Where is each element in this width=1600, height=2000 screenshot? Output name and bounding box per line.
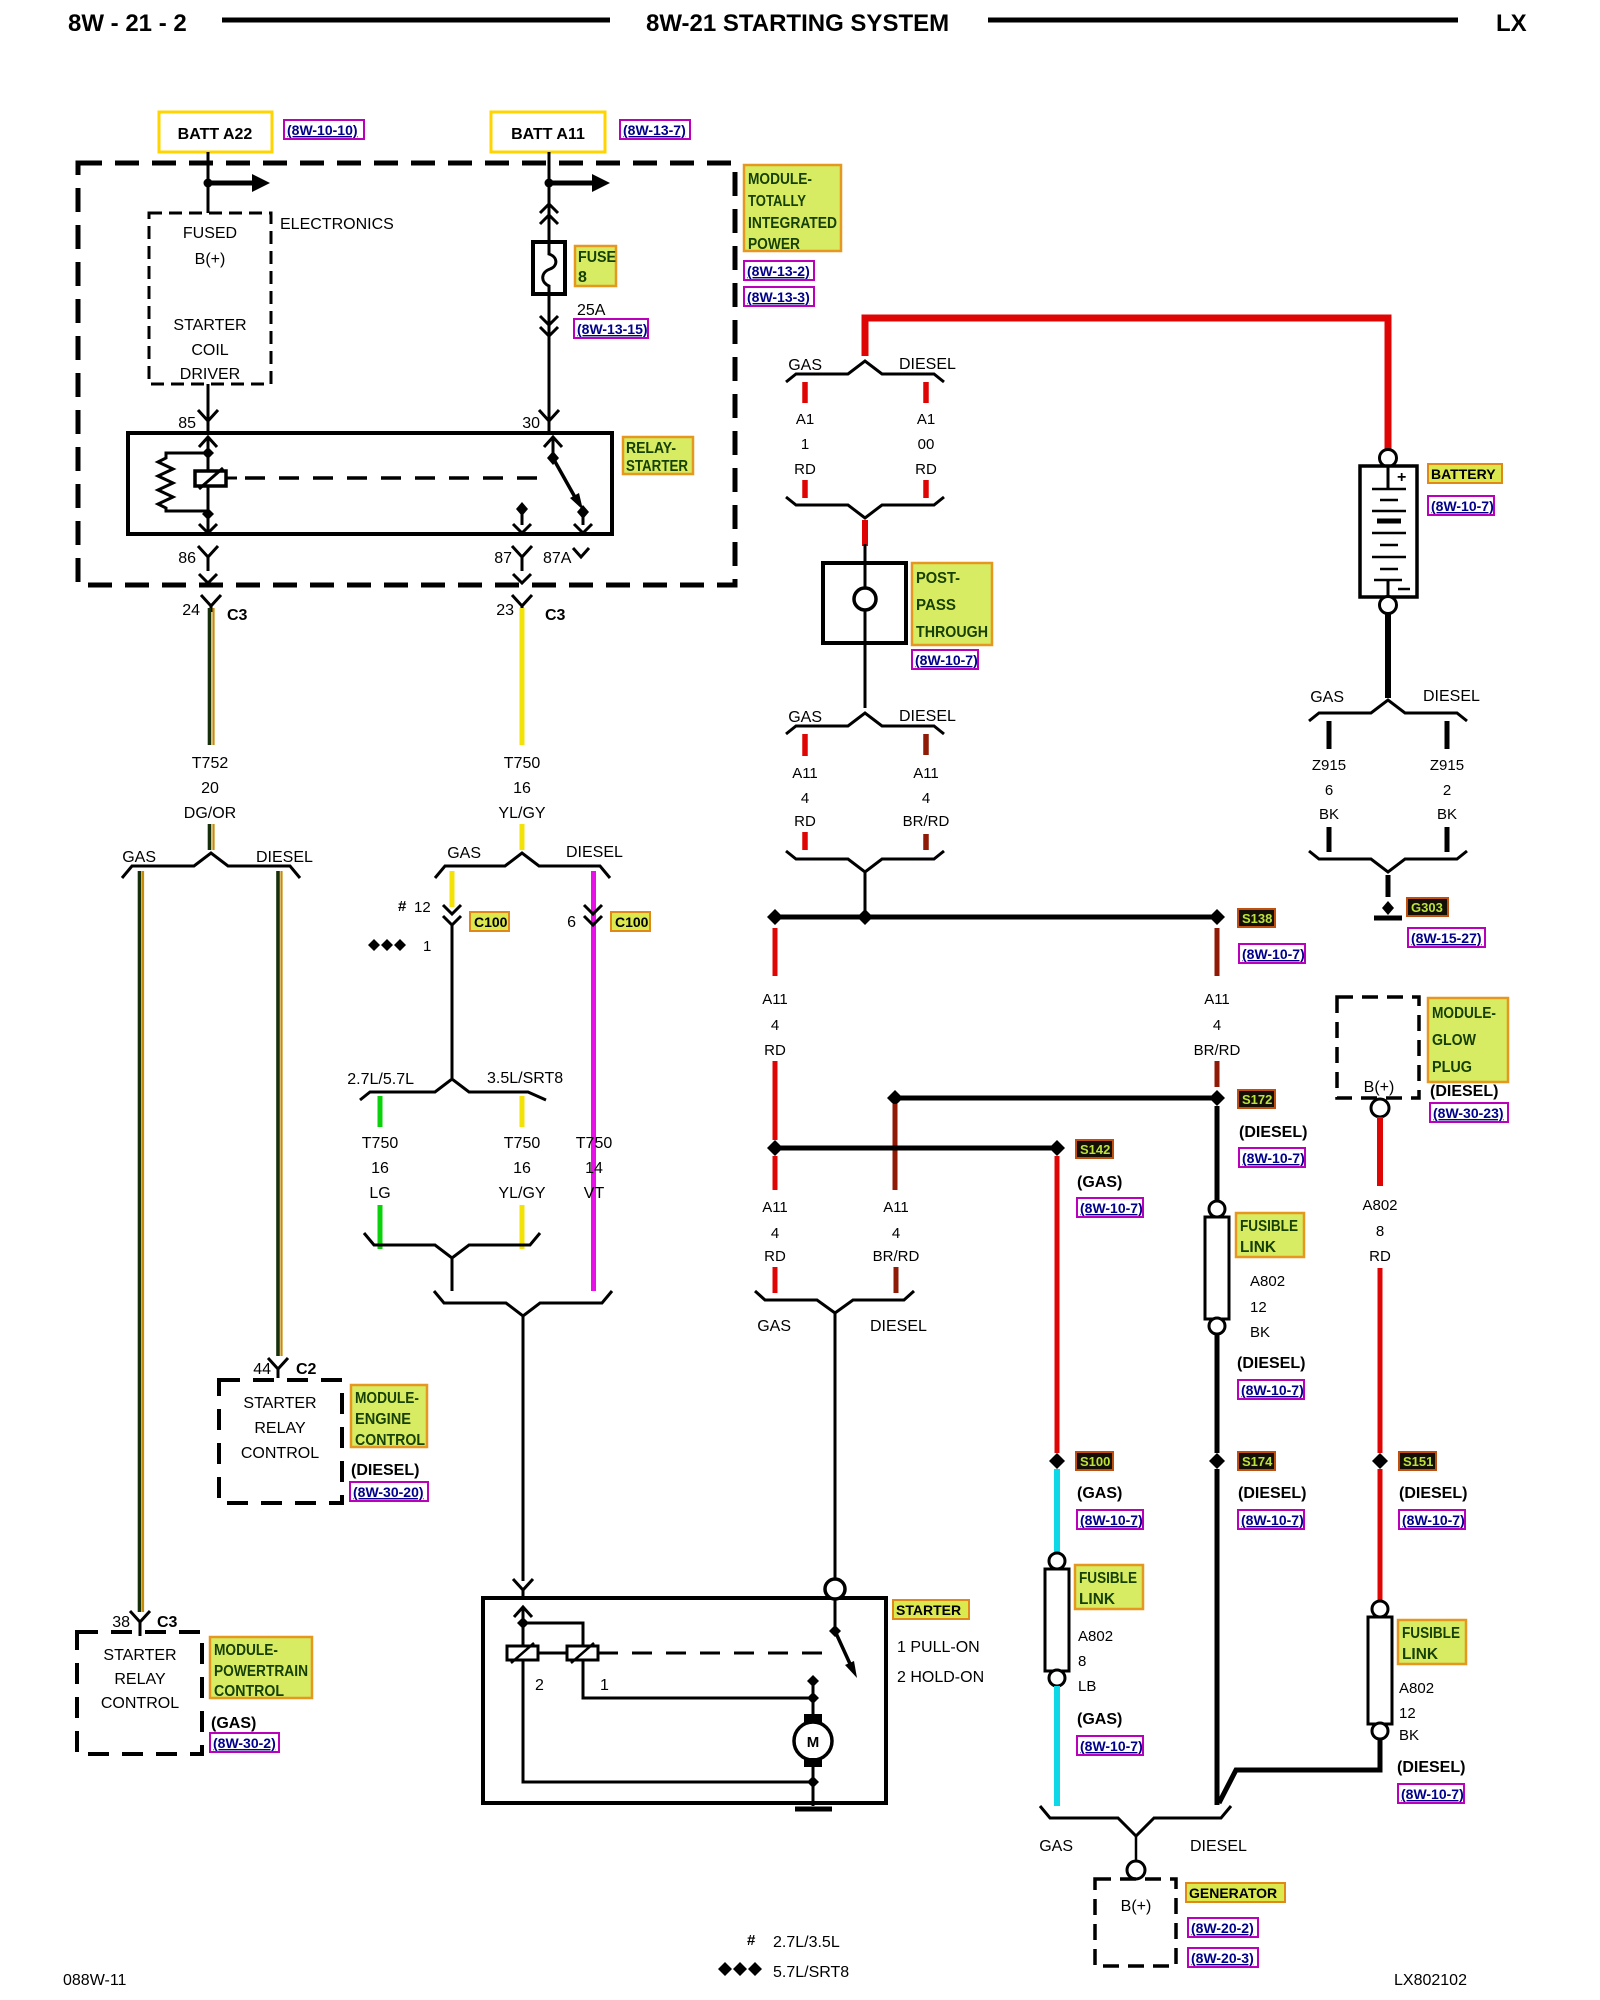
connector C100 diesel chevrons	[584, 905, 602, 925]
wire to generator terminal	[1135, 1836, 1138, 1862]
link 8W-10-7 battery	[1428, 496, 1494, 515]
connector C3 pin 23 Y	[512, 595, 532, 612]
wire RD gas below S142 bus	[773, 1156, 778, 1190]
wire stub LG lower	[378, 1205, 383, 1249]
svg-text:G303: G303	[1411, 900, 1443, 915]
svg-text:(8W-10-7): (8W-10-7)	[1401, 1786, 1464, 1802]
svg-text:POST-: POST-	[916, 570, 960, 587]
svg-text:#: #	[398, 898, 407, 915]
label T752 20 DG/OR	[184, 755, 236, 822]
svg-text:(8W-10-7): (8W-10-7)	[1241, 1382, 1304, 1398]
fusible link gas	[1045, 1553, 1069, 1686]
svg-text:RD: RD	[794, 461, 816, 478]
svg-text:87A: 87A	[543, 550, 572, 567]
label T750 14 VT	[576, 1135, 613, 1202]
link 8W-10-7 S172	[1239, 1148, 1305, 1167]
svg-text:FUSED: FUSED	[183, 225, 237, 242]
svg-text:+: +	[1397, 469, 1406, 486]
wire motor return to coil2	[523, 1660, 813, 1782]
svg-text:RD: RD	[764, 1042, 786, 1059]
svg-text:MODULE-: MODULE-	[355, 1390, 419, 1407]
junction dot coil bottom	[202, 508, 214, 520]
label FUSE 8	[575, 246, 616, 286]
glow plug terminal circle	[1371, 1099, 1389, 1117]
merge brace A1	[786, 497, 944, 518]
svg-text:LINK: LINK	[1079, 1591, 1115, 1608]
svg-text:BK: BK	[1319, 806, 1339, 823]
connector C3 Y pin 38	[130, 1611, 150, 1636]
svg-text:2.7L/5.7L: 2.7L/5.7L	[347, 1071, 414, 1088]
svg-text:C3: C3	[545, 607, 566, 624]
svg-text:T750: T750	[576, 1135, 613, 1152]
wire stub BR/RD above merge	[894, 1267, 899, 1293]
post pass-through box	[823, 544, 906, 643]
svg-text:RELAY: RELAY	[254, 1420, 306, 1437]
svg-text:S100: S100	[1080, 1454, 1110, 1469]
split brace engine variants	[360, 1079, 546, 1100]
junction diamond center bus	[857, 909, 873, 925]
label A11 4 BR/RD splice column	[1194, 991, 1241, 1059]
merge brace A11	[786, 851, 944, 872]
wire motor to ground	[812, 1782, 815, 1806]
svg-text:16: 16	[513, 1160, 531, 1177]
wire stub A1 diesel red lower	[923, 480, 929, 498]
label T750 16 LG	[362, 1135, 399, 1202]
wire FUSED box to pin 85	[207, 384, 210, 433]
label S151	[1399, 1452, 1436, 1470]
svg-text:BR/RD: BR/RD	[873, 1248, 920, 1265]
link 8W-20-3	[1188, 1948, 1258, 1967]
svg-text:BATTERY: BATTERY	[1431, 466, 1496, 482]
label A11 4 BR/RD diesel lower	[873, 1199, 920, 1265]
link 8W-10-7 S151	[1399, 1510, 1465, 1529]
svg-text:1 PULL-ON: 1 PULL-ON	[897, 1639, 980, 1656]
svg-text:1: 1	[801, 436, 809, 453]
relay switch blade	[553, 458, 583, 510]
svg-text:85: 85	[178, 415, 196, 432]
svg-text:4: 4	[771, 1017, 779, 1034]
svg-text:(8W-10-7): (8W-10-7)	[1080, 1738, 1143, 1754]
svg-text:2.7L/3.5L: 2.7L/3.5L	[773, 1934, 840, 1951]
svg-text:RD: RD	[794, 813, 816, 830]
label MODULE-TOTALLY INTEGRATED POWER	[744, 165, 841, 253]
svg-text:DIESEL: DIESEL	[870, 1318, 927, 1335]
starter switch pivot dot	[829, 1625, 841, 1637]
svg-text:A1: A1	[917, 411, 935, 428]
svg-text:MODULE-: MODULE-	[748, 171, 812, 188]
wire LB S100 to fusible link	[1054, 1469, 1060, 1554]
svg-text:24: 24	[182, 602, 200, 619]
svg-text:RD: RD	[1369, 1248, 1391, 1265]
svg-text:LINK: LINK	[1402, 1646, 1438, 1663]
starter dashed actuator line	[598, 1652, 830, 1655]
relay pin 30 entry arrow	[544, 437, 562, 457]
svg-text:16: 16	[513, 780, 531, 797]
svg-text:RD: RD	[915, 461, 937, 478]
wire stub A11 diesel brrd	[923, 734, 929, 755]
svg-text:CONTROL: CONTROL	[355, 1432, 425, 1449]
svg-text:RELAY: RELAY	[114, 1671, 166, 1688]
svg-text:BATT A22: BATT A22	[178, 126, 253, 143]
wire VT diesel branch	[591, 871, 596, 1291]
svg-text:STARTER: STARTER	[103, 1647, 176, 1664]
link 8W-30-2	[210, 1733, 279, 1752]
junction diamond S172	[1209, 1090, 1225, 1106]
link 8W-10-10	[284, 120, 364, 139]
wire T750 16 YL from pin 23	[520, 608, 525, 745]
relay coil symbol	[195, 468, 226, 489]
split brace gas/diesel right	[435, 853, 610, 878]
wire from BATT A11 down into TIPM	[548, 152, 551, 243]
svg-text:(DIESEL): (DIESEL)	[351, 1462, 419, 1479]
svg-text:(8W-30-23): (8W-30-23)	[1433, 1105, 1504, 1121]
svg-text:1: 1	[423, 938, 431, 955]
svg-text:(DIESEL): (DIESEL)	[1239, 1124, 1307, 1141]
merge brace engine variants	[364, 1233, 540, 1258]
link 8W-10-7 fl gas	[1077, 1736, 1143, 1755]
arrow feed to right from A22 node	[208, 174, 270, 192]
merge brace Z915	[1309, 851, 1467, 872]
label Z915 6 BK	[1312, 757, 1346, 823]
svg-text:12: 12	[414, 899, 431, 916]
label A802 8 LB	[1078, 1628, 1113, 1695]
label GENERATOR	[1186, 1883, 1285, 1902]
pin 87 connector Y and stem	[512, 546, 532, 583]
wire RD S151 to fusible link	[1378, 1469, 1383, 1602]
svg-text:(8W-13-15): (8W-13-15)	[577, 321, 648, 337]
connector C100 gas chevrons	[443, 905, 461, 925]
svg-text:6: 6	[1325, 782, 1333, 799]
svg-text:(DIESEL): (DIESEL)	[1399, 1485, 1467, 1502]
svg-text:Z915: Z915	[1312, 757, 1346, 774]
svg-text:4: 4	[1213, 1017, 1221, 1034]
svg-text:(8W-10-10): (8W-10-10)	[287, 122, 358, 138]
svg-text:00: 00	[918, 436, 935, 453]
svg-text:1: 1	[600, 1677, 609, 1694]
module box TIPM dashed outline	[78, 163, 735, 585]
pin 87A stub chevron	[573, 548, 589, 557]
svg-text:S172: S172	[1242, 1092, 1272, 1107]
starter switch terminal circle	[825, 1579, 845, 1599]
svg-text:38: 38	[112, 1614, 130, 1631]
link 8W-30-23	[1430, 1103, 1508, 1122]
generator terminal circle	[1127, 1861, 1145, 1879]
link 8W-13-3	[744, 287, 814, 306]
svg-text:(8W-13-7): (8W-13-7)	[623, 122, 686, 138]
wire stub YL above split	[520, 824, 525, 850]
link 8W-20-2	[1188, 1918, 1258, 1937]
label T750 16 YL/GY srt	[498, 1135, 545, 1202]
svg-text:DIESEL: DIESEL	[1423, 688, 1480, 705]
junction diamond S151	[1372, 1453, 1388, 1469]
link 8W-10-7 S142	[1077, 1198, 1143, 1217]
pin 30 connector Y	[539, 410, 559, 433]
wire to starter switch	[834, 1313, 837, 1579]
link 8W-10-7 S174	[1238, 1510, 1304, 1529]
junction dot motor top node	[807, 1675, 819, 1687]
wire stub Z915 diesel bk	[1445, 721, 1450, 749]
wire RD glow plug to S151	[1378, 1268, 1383, 1453]
label A11 4 BR/RD diesel	[903, 765, 950, 830]
label S172	[1238, 1090, 1275, 1108]
svg-text:DIESEL: DIESEL	[256, 849, 313, 866]
label S142	[1076, 1140, 1113, 1158]
link 8W-10-7 S138	[1239, 944, 1305, 963]
svg-text:A11: A11	[762, 1199, 788, 1216]
wire RD gas branch mid	[773, 1061, 778, 1140]
wire stub BR/RD above S172	[1215, 1061, 1220, 1087]
label C100 diesel	[611, 912, 650, 931]
arrow into starter box	[514, 1607, 532, 1617]
svg-text:S151: S151	[1403, 1454, 1433, 1469]
battery body	[1360, 466, 1417, 597]
svg-text:(GAS): (GAS)	[1077, 1711, 1122, 1728]
label A802 12 BK upper	[1250, 1273, 1285, 1341]
svg-text:25A: 25A	[577, 302, 606, 319]
split brace A1 gas/diesel	[786, 361, 944, 382]
starter ground bar	[795, 1807, 832, 1812]
wire BK S172 to fusible link	[1215, 1106, 1220, 1202]
connector C2 Y pin 44	[268, 1358, 288, 1378]
svg-text:B(+): B(+)	[195, 251, 226, 268]
label RELAY-STARTER	[623, 437, 693, 475]
svg-text:T750: T750	[362, 1135, 399, 1152]
junction diamond S174	[1209, 1453, 1225, 1469]
svg-text:C100: C100	[474, 914, 508, 930]
wire RD glow plug down	[1377, 1117, 1383, 1186]
starter input wire	[522, 1607, 525, 1660]
svg-text:T750: T750	[504, 755, 541, 772]
svg-text:(8W-15-27): (8W-15-27)	[1411, 930, 1482, 946]
label T750 16 YL/GY	[498, 755, 545, 822]
wire LB fl to merge	[1054, 1686, 1060, 1806]
svg-text:8W-21 STARTING SYSTEM: 8W-21 STARTING SYSTEM	[646, 10, 949, 37]
svg-text:GLOW: GLOW	[1432, 1032, 1477, 1049]
svg-text:DIESEL: DIESEL	[566, 844, 623, 861]
pin 85 connector Y	[198, 410, 218, 433]
svg-text:DG/OR: DG/OR	[184, 805, 236, 822]
svg-text:(DIESEL): (DIESEL)	[1397, 1759, 1465, 1776]
svg-text:COIL: COIL	[191, 342, 228, 359]
svg-text:(8W-10-7): (8W-10-7)	[1242, 946, 1305, 962]
svg-text:5.7L/SRT8: 5.7L/SRT8	[773, 1964, 849, 1981]
wire RD gas branch down from bus	[773, 928, 778, 976]
svg-text:C100: C100	[615, 914, 649, 930]
svg-text:M: M	[807, 1734, 820, 1751]
svg-text:POWER: POWER	[748, 236, 800, 253]
header rule right	[988, 18, 1458, 23]
svg-text:S138: S138	[1242, 911, 1272, 926]
relay box RELAY-STARTER	[128, 433, 612, 534]
svg-text:(GAS): (GAS)	[211, 1715, 256, 1732]
coil 2 hold-on	[507, 1643, 538, 1663]
wire fuse to pin 30	[548, 294, 551, 433]
svg-text:TOTALLY: TOTALLY	[748, 193, 806, 210]
starter switch wire	[834, 1599, 837, 1631]
wire DG/OR gas branch long	[140, 871, 144, 1612]
label MODULE-POWERTRAIN CONTROL	[210, 1637, 312, 1700]
svg-text:GAS: GAS	[757, 1318, 791, 1335]
label STARTER	[893, 1600, 969, 1619]
svg-text:LX802102: LX802102	[1394, 1972, 1467, 1989]
svg-text:T752: T752	[192, 755, 229, 772]
module box STARTER RELAY CONTROL diesel	[219, 1380, 342, 1503]
module box STARTER RELAY CONTROL gas	[77, 1632, 202, 1754]
svg-text:STARTER: STARTER	[896, 1602, 961, 1618]
junction dot coil top	[202, 447, 214, 459]
label S174	[1238, 1452, 1275, 1470]
junction dot coil1 node	[807, 1692, 819, 1704]
label A1 00 RD	[915, 411, 937, 478]
svg-text:20: 20	[201, 780, 219, 797]
splice bus S142 horizontal	[775, 1146, 1057, 1151]
wire stub LG	[378, 1096, 383, 1127]
svg-text:POWERTRAIN: POWERTRAIN	[214, 1663, 308, 1680]
junction diamond diesel branch	[887, 1090, 903, 1106]
svg-text:16: 16	[371, 1160, 389, 1177]
svg-text:BK: BK	[1399, 1727, 1419, 1744]
label MODULE-ENGINE CONTROL	[351, 1385, 427, 1449]
svg-text:BR/RD: BR/RD	[903, 813, 950, 830]
svg-text:3.5L/SRT8: 3.5L/SRT8	[487, 1070, 563, 1087]
svg-text:B(+): B(+)	[1364, 1079, 1395, 1096]
svg-text:12: 12	[1250, 1299, 1267, 1316]
wire stub YL lower	[520, 1205, 525, 1249]
svg-text:BR/RD: BR/RD	[1194, 1042, 1241, 1059]
svg-text:8: 8	[1376, 1223, 1384, 1240]
wire battery negative down	[1385, 614, 1391, 698]
svg-text:YL/GY: YL/GY	[498, 805, 545, 822]
label POST-PASS THROUGH	[912, 563, 992, 645]
wire BK diesel elbow to merge	[1219, 1739, 1380, 1803]
svg-text:A11: A11	[762, 991, 788, 1008]
link 8W-10-7 S100	[1077, 1510, 1143, 1529]
relay coil wire pin85 to pin86	[207, 437, 210, 534]
relay pin 87 contact dot	[516, 502, 528, 516]
svg-text:GAS: GAS	[1310, 689, 1344, 706]
svg-text:YL/GY: YL/GY	[498, 1185, 545, 1202]
label A802 8 RD	[1362, 1197, 1397, 1265]
svg-text:GAS: GAS	[122, 849, 156, 866]
connector box BATT A22	[159, 112, 272, 152]
split brace A11 gas/diesel	[786, 713, 944, 734]
svg-text:PLUG: PLUG	[1432, 1059, 1472, 1076]
svg-text:(8W-10-7): (8W-10-7)	[1080, 1512, 1143, 1528]
link 8W-13-7	[620, 120, 690, 139]
link 8W-15-27	[1408, 928, 1485, 947]
svg-text:DIESEL: DIESEL	[899, 708, 956, 725]
svg-text:B(+): B(+)	[1121, 1898, 1152, 1915]
starter motor M	[794, 1681, 832, 1782]
relay wire to pin 87	[513, 509, 531, 533]
wire black gas to engine split	[451, 925, 454, 1078]
wire coil2 down	[522, 1660, 525, 1782]
splice bus S138 horizontal	[775, 915, 1217, 920]
junction diamond gas branch	[767, 1140, 783, 1156]
svg-text:(DIESEL): (DIESEL)	[1430, 1083, 1498, 1100]
svg-text:LB: LB	[1078, 1678, 1096, 1695]
svg-text:INTEGRATED: INTEGRATED	[748, 215, 837, 232]
svg-text:PASS: PASS	[916, 597, 956, 614]
relay wire to pin 87A	[574, 512, 592, 533]
wire merged gas down	[451, 1258, 454, 1291]
merge brace gas/diesel to starter	[434, 1291, 612, 1316]
wire BR/RD diesel branch down	[893, 1104, 898, 1190]
svg-text:(8W-10-7): (8W-10-7)	[915, 652, 978, 668]
wire T752 20 DG/OR from pin 24	[210, 608, 214, 745]
split brace Z915 gas/diesel	[1309, 700, 1467, 721]
svg-text:CONTROL: CONTROL	[214, 1683, 284, 1700]
svg-text:088W-11: 088W-11	[63, 1972, 127, 1989]
svg-text:8W - 21 - 2: 8W - 21 - 2	[68, 10, 187, 37]
label FUSIBLE LINK gas	[1075, 1565, 1143, 1609]
svg-text:BK: BK	[1250, 1324, 1270, 1341]
svg-text:44: 44	[253, 1361, 271, 1378]
sub-module box FUSED B(+) STARTER COIL DRIVER	[149, 213, 271, 384]
wire stub Z915 gas bk lower	[1327, 827, 1332, 852]
module box MODULE-GLOW PLUG dashed	[1337, 997, 1419, 1098]
svg-text:C3: C3	[227, 607, 248, 624]
svg-text:FUSE: FUSE	[578, 249, 616, 266]
svg-text:BK: BK	[1437, 806, 1457, 823]
wire stub A1 diesel red	[923, 382, 929, 403]
svg-text:GAS: GAS	[447, 845, 481, 862]
svg-text:30: 30	[522, 415, 540, 432]
svg-text:4: 4	[892, 1225, 900, 1242]
junction dot motor bottom	[807, 1776, 819, 1788]
svg-text:Z915: Z915	[1430, 757, 1464, 774]
svg-text:STARTER: STARTER	[243, 1395, 316, 1412]
wire A11 to splice bus	[864, 872, 867, 917]
junction dot on A22 wire	[204, 179, 213, 188]
junction diamond S138	[1209, 909, 1225, 925]
svg-text:(8W-10-7): (8W-10-7)	[1080, 1200, 1143, 1216]
wire stub BR/RD below S138	[1215, 928, 1220, 976]
coil 1 pull-on	[567, 1643, 598, 1663]
svg-text:A11: A11	[792, 765, 818, 782]
svg-text:2 HOLD-ON: 2 HOLD-ON	[897, 1669, 984, 1686]
relay switch pivot dot	[547, 451, 559, 465]
svg-text:(8W-13-3): (8W-13-3)	[747, 289, 810, 305]
footnote diamonds engines	[718, 1962, 849, 1981]
svg-text:A11: A11	[883, 1199, 909, 1216]
svg-text:STARTER: STARTER	[173, 317, 246, 334]
split brace gas/diesel left	[122, 853, 300, 878]
junction diamond left bus	[767, 909, 783, 925]
wire stub A11 gas red lower	[802, 832, 808, 850]
svg-text:LX: LX	[1496, 10, 1527, 37]
wire YL gas branch	[450, 871, 455, 907]
wire stub Z915 diesel bk lower	[1445, 827, 1450, 852]
svg-text:S142: S142	[1080, 1142, 1110, 1157]
svg-text:4: 4	[801, 790, 809, 807]
label A1 1 RD	[794, 411, 816, 478]
svg-text:A802: A802	[1250, 1273, 1285, 1290]
wire stub DG/OR above split	[210, 824, 214, 850]
svg-text:8: 8	[1078, 1653, 1086, 1670]
resistor in relay	[158, 453, 208, 511]
connector chevrons above fuse	[540, 204, 558, 224]
label MODULE-GLOW PLUG	[1428, 998, 1508, 1082]
link 8W-10-7 fl diesel	[1398, 1784, 1464, 1803]
svg-text:8: 8	[578, 269, 587, 286]
svg-text:RD: RD	[764, 1248, 786, 1265]
label FUSIBLE LINK diesel	[1398, 1620, 1466, 1664]
svg-text:(DIESEL): (DIESEL)	[1238, 1485, 1306, 1502]
svg-text:DIESEL: DIESEL	[1190, 1838, 1247, 1855]
svg-text:87: 87	[494, 550, 512, 567]
arrow into relay at pin 85	[199, 437, 217, 447]
